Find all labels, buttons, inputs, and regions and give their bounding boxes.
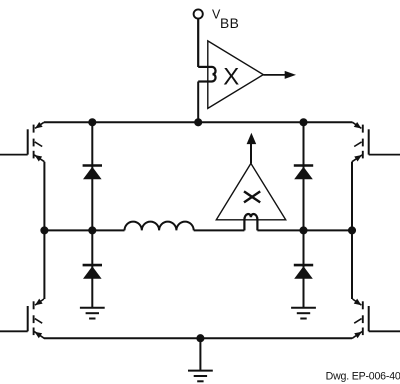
junction node middle far-right xyxy=(348,226,356,234)
wire VBB vertical lower xyxy=(197,82,199,123)
svg-text:BB: BB xyxy=(220,16,239,31)
inductor L1 xyxy=(125,222,194,231)
op-amp U1 triangle xyxy=(208,41,263,109)
wire jog into U1 input top xyxy=(198,66,211,68)
wire VBB vertical upper xyxy=(197,19,199,67)
ground center xyxy=(188,371,213,382)
diode D2 lower-left xyxy=(83,265,102,279)
junction node top-left xyxy=(88,118,96,126)
wire Q3 drain from middle bus xyxy=(43,230,45,299)
wire right diode column xyxy=(303,122,305,307)
diode D1 upper-left xyxy=(83,166,102,180)
wire U2 input riser right xyxy=(256,220,258,231)
wire Q1 source to middle bus xyxy=(43,162,45,231)
wire center ground drop xyxy=(199,338,201,371)
op-amp U2 multiply sign stroke 1 xyxy=(244,191,260,202)
wire top bus xyxy=(44,121,353,123)
input coupling coil of U1 xyxy=(212,67,216,82)
junction node bottom-center xyxy=(196,334,204,342)
terminal VBB xyxy=(194,9,203,18)
svg-text:X: X xyxy=(223,63,239,90)
junction node middle far-left xyxy=(40,226,48,234)
wire bottom bus xyxy=(44,337,352,339)
U1 output arrowhead xyxy=(285,71,296,79)
op-amp U2 triangle xyxy=(216,163,285,219)
diode D3 upper-right xyxy=(294,166,313,180)
junction node middle right xyxy=(299,226,307,234)
transistor Q4 bottom-right xyxy=(352,299,400,339)
op-amp U2 output arrow wire xyxy=(250,144,252,163)
wire U1 output xyxy=(263,74,285,76)
transistor Q3 bottom-left xyxy=(0,299,44,339)
wire middle bus right xyxy=(257,229,352,231)
input coupling coil of U2 xyxy=(244,214,257,220)
wire Q4 drain from middle bus xyxy=(351,230,353,299)
wire jog out of U1 input bottom xyxy=(198,80,211,82)
op-amp U2 multiply sign stroke 2 xyxy=(244,191,260,202)
junction node middle left xyxy=(88,226,96,234)
wire middle bus center xyxy=(194,229,245,231)
transistor Q2 top-right xyxy=(352,122,400,162)
op-amp U2 output arrowhead xyxy=(247,133,257,144)
wire Q2 source to middle bus xyxy=(351,162,353,231)
junction node top-center xyxy=(194,118,202,126)
wire left diode column xyxy=(91,122,93,307)
transistor Q1 top-left xyxy=(0,122,44,162)
wire U2 input riser left xyxy=(243,220,245,231)
svg-text:Dwg. EP-006-40: Dwg. EP-006-40 xyxy=(326,370,400,382)
junction node top-right xyxy=(299,118,307,126)
wire middle bus left xyxy=(44,229,124,231)
ground under D2 xyxy=(80,308,105,319)
ground under D4 xyxy=(291,308,316,319)
diode D4 lower-right xyxy=(294,265,313,279)
